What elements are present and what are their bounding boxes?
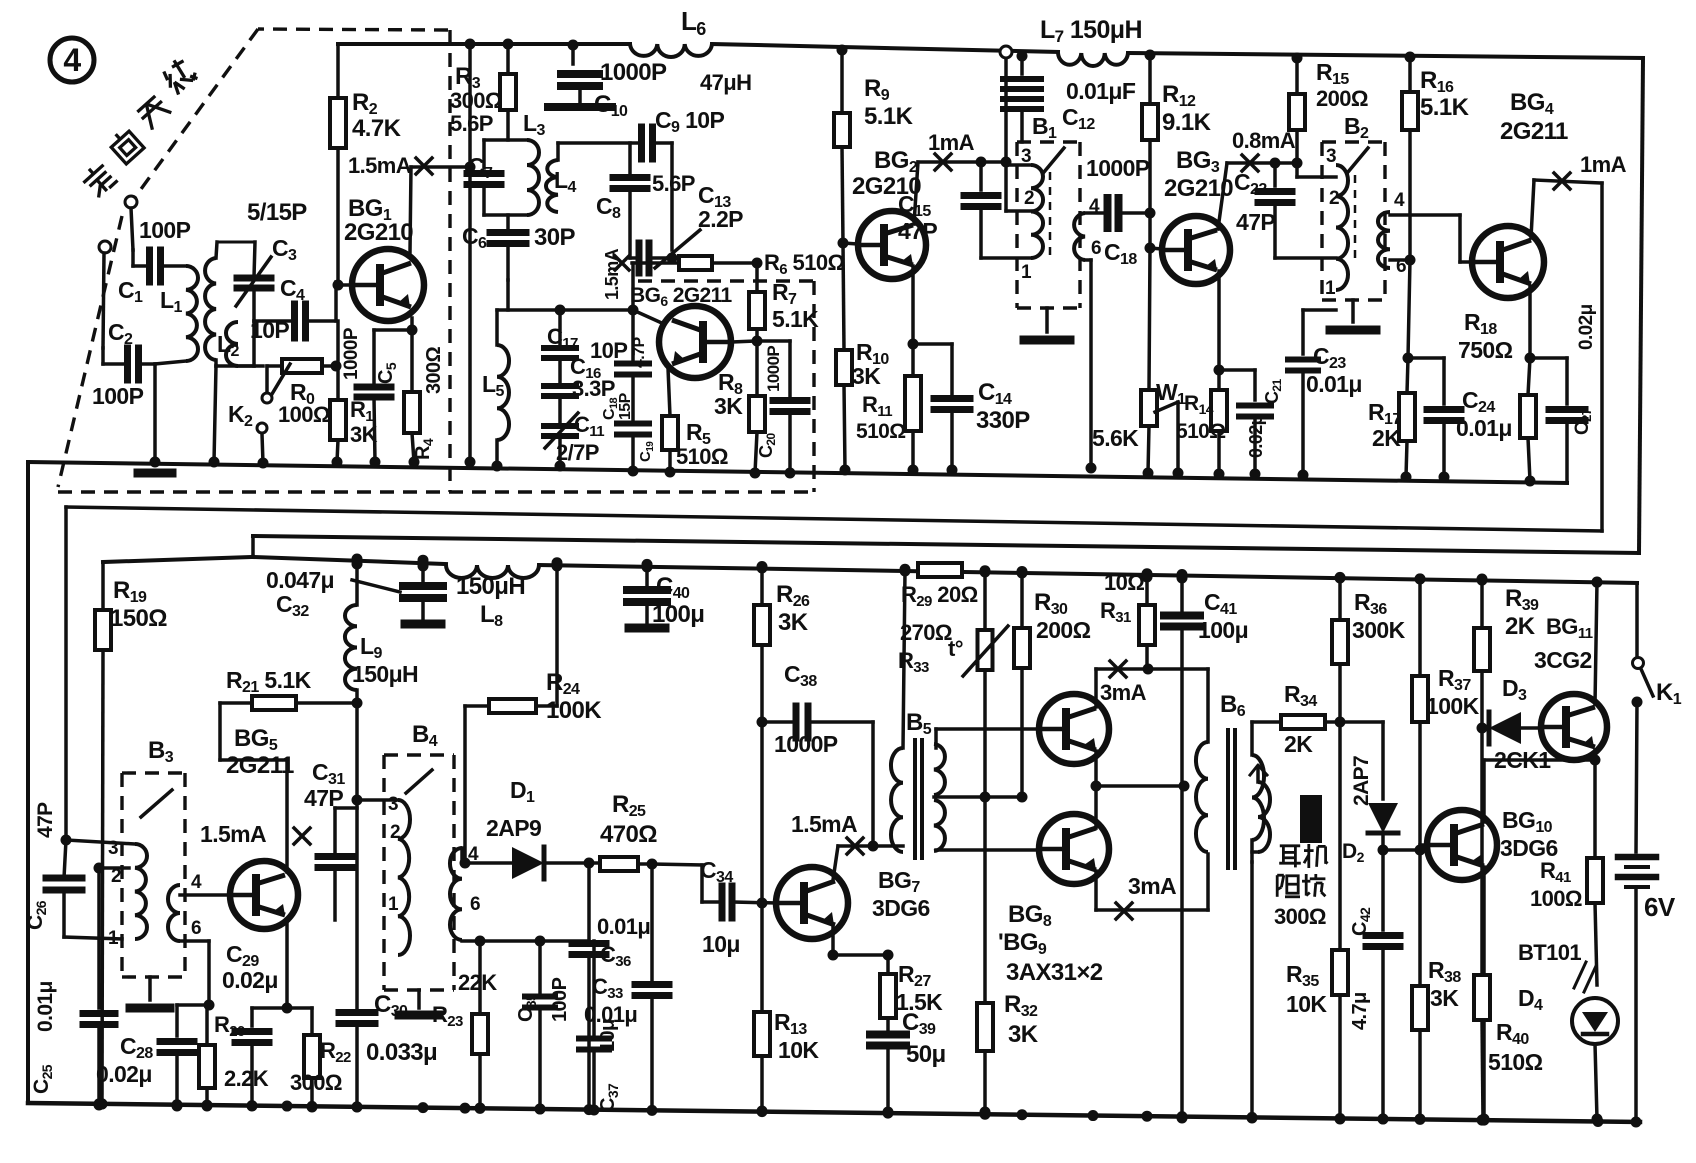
svg-text:15P: 15P xyxy=(617,392,634,420)
svg-text:5.6P: 5.6P xyxy=(450,111,493,136)
svg-text:0.02μ: 0.02μ xyxy=(96,1061,152,1087)
svg-text:300Ω: 300Ω xyxy=(290,1070,342,1095)
svg-text:4: 4 xyxy=(63,42,81,78)
svg-text:0.01μ: 0.01μ xyxy=(1306,371,1362,397)
svg-text:0.01μ: 0.01μ xyxy=(597,914,650,939)
svg-text:2G210: 2G210 xyxy=(344,219,413,246)
svg-text:330P: 330P xyxy=(976,407,1030,434)
svg-text:150μH: 150μH xyxy=(352,661,418,687)
svg-text:10Ω: 10Ω xyxy=(1104,570,1144,595)
svg-text:6: 6 xyxy=(1396,256,1406,277)
svg-text:510Ω: 510Ω xyxy=(856,420,905,443)
svg-text:3K: 3K xyxy=(1430,985,1459,1011)
svg-text:300Ω: 300Ω xyxy=(450,88,502,113)
svg-text:3: 3 xyxy=(1021,146,1031,167)
svg-text:6: 6 xyxy=(191,918,201,939)
svg-text:750Ω: 750Ω xyxy=(1458,337,1513,363)
svg-text:470Ω: 470Ω xyxy=(600,821,657,848)
svg-text:3: 3 xyxy=(1326,146,1336,167)
svg-text:2: 2 xyxy=(1329,188,1339,209)
svg-text:510Ω: 510Ω xyxy=(1176,420,1225,443)
svg-text:2G210: 2G210 xyxy=(1164,175,1233,202)
svg-text:1000P: 1000P xyxy=(1086,155,1150,181)
svg-text:3K: 3K xyxy=(852,363,881,389)
svg-text:3K: 3K xyxy=(714,393,743,419)
svg-text:10μ: 10μ xyxy=(702,931,740,957)
svg-text:3: 3 xyxy=(388,794,398,815)
svg-text:10K: 10K xyxy=(778,1037,819,1063)
svg-text:3mA: 3mA xyxy=(1100,680,1147,705)
svg-text:270Ω: 270Ω xyxy=(900,620,952,645)
svg-text:0.01μ: 0.01μ xyxy=(1456,415,1512,441)
svg-text:R29​ 20Ω: R29​ 20Ω xyxy=(901,582,978,610)
svg-text:4.7K: 4.7K xyxy=(352,115,402,142)
svg-text:0.01μ: 0.01μ xyxy=(34,981,57,1032)
svg-text:6: 6 xyxy=(1091,238,1101,259)
svg-text:0.02μ: 0.02μ xyxy=(1576,304,1597,350)
svg-text:1000P: 1000P xyxy=(764,346,783,392)
svg-text:2K: 2K xyxy=(1284,731,1313,757)
svg-text:200Ω: 200Ω xyxy=(1036,617,1091,643)
svg-text:1mA: 1mA xyxy=(928,130,975,155)
svg-text:2AP9: 2AP9 xyxy=(486,815,541,841)
svg-text:5.1K: 5.1K xyxy=(1420,94,1470,121)
svg-text:0.8mA: 0.8mA xyxy=(1232,128,1296,153)
svg-text:100P: 100P xyxy=(139,217,191,243)
svg-text:3AX31×2: 3AX31×2 xyxy=(1006,959,1103,986)
svg-text:1.5mA: 1.5mA xyxy=(200,821,266,847)
svg-text:2.2K: 2.2K xyxy=(224,1066,269,1091)
svg-text:47μH: 47μH xyxy=(700,70,751,95)
svg-text:2AP7: 2AP7 xyxy=(1350,756,1373,806)
svg-text:2: 2 xyxy=(111,866,121,887)
svg-text:BT101: BT101 xyxy=(1518,940,1581,965)
svg-text:150μH: 150μH xyxy=(456,573,525,600)
svg-text:1mA: 1mA xyxy=(1580,152,1627,177)
svg-text:100P: 100P xyxy=(92,383,144,409)
svg-text:100Ω: 100Ω xyxy=(278,402,330,427)
svg-text:1: 1 xyxy=(1325,278,1336,299)
svg-text:5/15P: 5/15P xyxy=(247,199,307,226)
svg-text:10μ: 10μ xyxy=(597,1019,619,1052)
svg-text:2/7P: 2/7P xyxy=(556,440,599,465)
svg-text:47P: 47P xyxy=(898,218,937,244)
svg-text:2K: 2K xyxy=(1505,613,1536,640)
svg-text:3K: 3K xyxy=(350,422,378,447)
svg-text:300Ω: 300Ω xyxy=(423,346,445,394)
svg-text:300K: 300K xyxy=(1352,617,1406,643)
svg-text:2: 2 xyxy=(390,822,400,843)
svg-text:0.01μF: 0.01μF xyxy=(1066,78,1136,104)
svg-text:10P: 10P xyxy=(590,338,627,363)
svg-text:5.6P: 5.6P xyxy=(652,171,695,196)
svg-text:1: 1 xyxy=(108,928,119,949)
svg-text:5.1K: 5.1K xyxy=(864,103,914,130)
svg-text:1000P: 1000P xyxy=(774,731,838,757)
svg-text:100K: 100K xyxy=(546,697,602,724)
svg-text:3K: 3K xyxy=(1008,1021,1039,1048)
svg-text:t°: t° xyxy=(948,636,963,661)
svg-text:6V: 6V xyxy=(1644,892,1676,922)
svg-text:10K: 10K xyxy=(1286,991,1327,1017)
svg-text:510Ω: 510Ω xyxy=(676,444,728,469)
svg-text:R21​ 5.1K: R21​ 5.1K xyxy=(226,667,312,696)
svg-text:2G211: 2G211 xyxy=(226,752,294,779)
svg-text:3CG2: 3CG2 xyxy=(1534,647,1592,673)
svg-text:4.7μ: 4.7μ xyxy=(1349,992,1371,1030)
svg-text:100P: 100P xyxy=(549,977,571,1022)
svg-text:5.6K: 5.6K xyxy=(1092,425,1139,451)
svg-text:3K: 3K xyxy=(778,609,809,636)
svg-text:2.2P: 2.2P xyxy=(698,206,743,232)
svg-text:4: 4 xyxy=(1089,196,1100,217)
svg-text:3DG6: 3DG6 xyxy=(872,895,930,921)
svg-text:4: 4 xyxy=(191,872,202,893)
svg-text:1: 1 xyxy=(388,894,399,915)
svg-text:100Ω: 100Ω xyxy=(1530,886,1582,911)
svg-text:47P: 47P xyxy=(1236,209,1275,235)
svg-text:300Ω: 300Ω xyxy=(1274,904,1326,929)
svg-text:6: 6 xyxy=(470,894,480,915)
svg-text:4.7P: 4.7P xyxy=(631,337,648,368)
svg-text:10P: 10P xyxy=(250,317,289,343)
svg-text:2K: 2K xyxy=(1372,425,1401,451)
svg-text:22K: 22K xyxy=(458,970,497,995)
svg-text:30P: 30P xyxy=(534,224,575,251)
svg-text:47P: 47P xyxy=(304,785,343,811)
svg-text:R6​ 510Ω: R6​ 510Ω xyxy=(764,250,845,278)
svg-text:2CK1: 2CK1 xyxy=(1494,747,1551,773)
svg-text:2: 2 xyxy=(1024,188,1034,209)
svg-text:3: 3 xyxy=(108,838,118,859)
svg-text:1.5mA: 1.5mA xyxy=(791,811,857,837)
svg-text:100μ: 100μ xyxy=(652,601,704,628)
svg-text:47P: 47P xyxy=(34,802,57,838)
svg-text:1.5mA: 1.5mA xyxy=(602,248,622,300)
svg-text:3mA: 3mA xyxy=(1128,873,1176,899)
svg-text:C9​ 10P: C9​ 10P xyxy=(655,107,725,136)
svg-text:1000P: 1000P xyxy=(600,59,667,86)
svg-text:4: 4 xyxy=(1394,190,1405,211)
svg-text:50μ: 50μ xyxy=(906,1041,946,1068)
svg-text:1.5mA: 1.5mA xyxy=(348,153,412,178)
svg-text:1000P: 1000P xyxy=(341,327,362,380)
svg-text:200Ω: 200Ω xyxy=(1316,86,1368,111)
svg-text:2G211: 2G211 xyxy=(1500,118,1568,145)
svg-text:0.02μ: 0.02μ xyxy=(1246,415,1266,458)
svg-text:1: 1 xyxy=(1021,262,1032,283)
svg-text:5.1K: 5.1K xyxy=(772,306,819,332)
svg-text:BG6​ 2G211: BG6​ 2G211 xyxy=(630,284,733,309)
svg-text:100μ: 100μ xyxy=(1198,617,1248,643)
svg-text:0.02μ: 0.02μ xyxy=(222,967,278,993)
svg-text:510Ω: 510Ω xyxy=(1488,1049,1543,1075)
svg-text:3.3P: 3.3P xyxy=(572,376,615,401)
svg-text:100K: 100K xyxy=(1426,693,1480,719)
svg-text:0.033μ: 0.033μ xyxy=(366,1039,437,1066)
svg-text:9.1K: 9.1K xyxy=(1162,109,1212,136)
svg-text:0.047μ: 0.047μ xyxy=(266,567,334,593)
svg-text:150Ω: 150Ω xyxy=(110,605,167,632)
